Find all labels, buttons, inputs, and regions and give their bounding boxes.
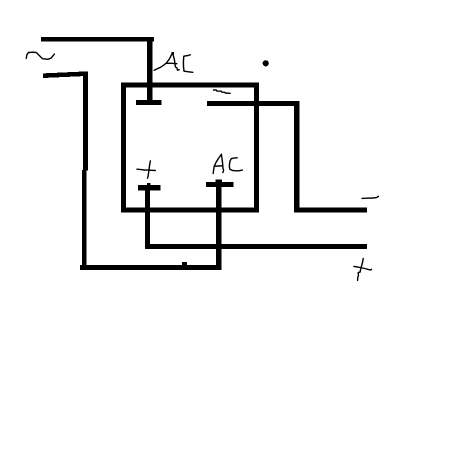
bridge rectifier U1 (package outline box) — [124, 85, 257, 210]
wire AC input 1: top horizontal run — [41, 37, 154, 42]
label - (minus output) — [362, 196, 378, 198]
wire junction nub on bottom run — [182, 262, 187, 265]
label AC (top): letter A — [154, 53, 172, 70]
wire AC input 2: long left vertical (lower part, slight jog) — [82, 170, 87, 270]
label AC (top) peak dot of A — [171, 52, 174, 55]
terminal minus: horizontal lead out of box — [207, 101, 299, 106]
label + (plus output): upper vertical stroke — [361, 258, 363, 268]
label AC (bottom): letter A — [213, 154, 221, 173]
label ~ (AC source squiggle, left) — [26, 52, 54, 59]
wire AC input 2: slanted horizontal at upper left — [43, 71, 88, 78]
wire AC input 2: vertical from AC2 bar down — [216, 187, 222, 270]
terminal plus bar (bottom-left pin of bridge) — [138, 185, 161, 190]
terminal AC1 bar (top-left pin of bridge) — [136, 100, 162, 105]
wire plus output: horizontal run to + lead — [145, 244, 367, 249]
label + (plus output): lower vertical stroke — [358, 269, 361, 280]
label ~ (small squiggle above minus terminal) — [214, 90, 231, 93]
label + (plus output): horizontal stroke — [354, 266, 372, 270]
terminal AC2 bar (bottom-right pin of bridge) — [206, 182, 234, 187]
wire AC input 1: vertical drop to AC1 terminal — [147, 37, 153, 103]
wire minus output: vertical segment — [294, 101, 299, 212]
wire AC input 2: bottom horizontal run — [80, 265, 222, 270]
wire AC input 2: long left vertical (upper part) — [83, 71, 88, 170]
terminal plus: nub above bar — [147, 183, 150, 186]
label + (plus terminal, inside box): vertical stroke — [148, 161, 151, 178]
label AC (bottom): letter C — [229, 158, 242, 171]
wire minus output: horizontal run to - lead — [294, 207, 367, 212]
terminal AC2: nub above bar — [215, 180, 222, 183]
label + (plus terminal, inside box): horizontal stroke — [137, 169, 155, 170]
wire plus output: vertical drop — [145, 190, 150, 249]
node dot (stray point upper right) — [263, 60, 269, 66]
label AC (top): letter C — [183, 55, 192, 73]
